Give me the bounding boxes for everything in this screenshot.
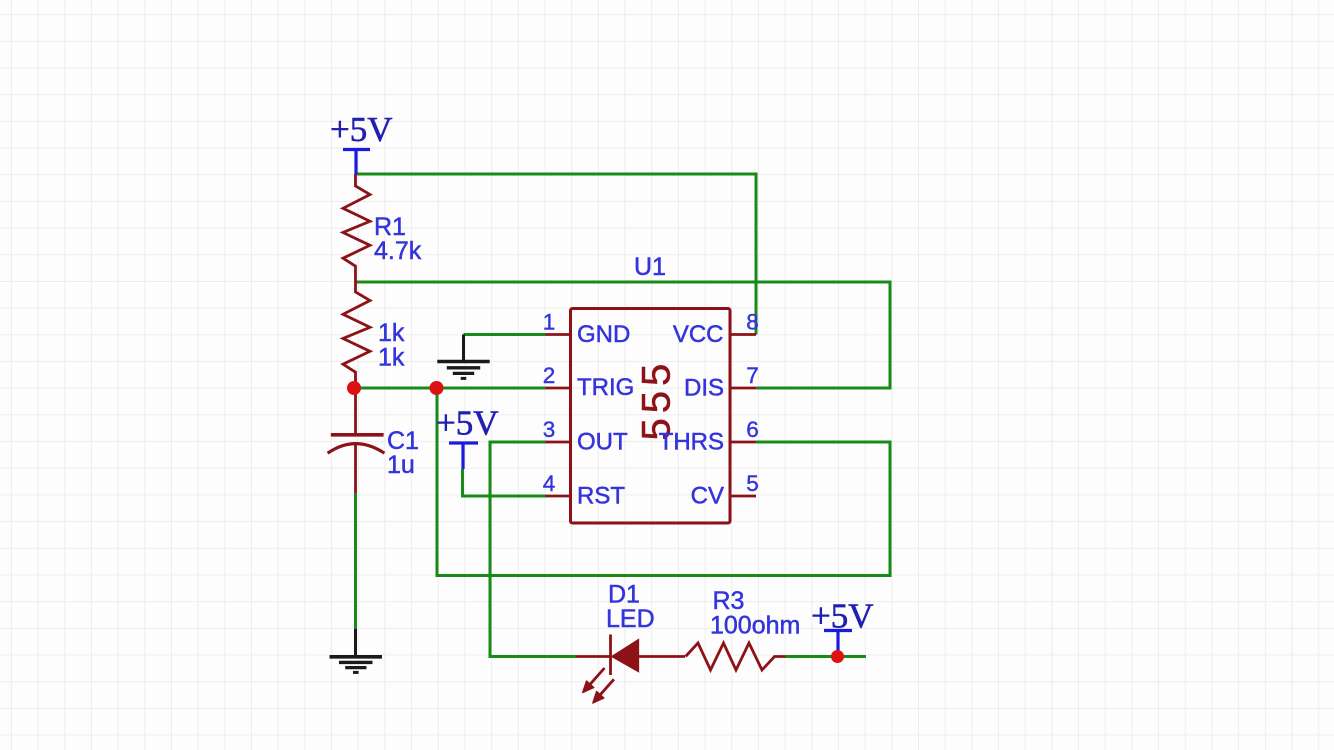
svg-text:TRIG: TRIG xyxy=(577,374,634,401)
svg-text:OUT: OUT xyxy=(577,429,628,456)
svg-text:DIS: DIS xyxy=(684,375,724,402)
svg-text:U1: U1 xyxy=(634,253,666,281)
svg-text:RST: RST xyxy=(577,483,625,510)
svg-text:VCC: VCC xyxy=(673,321,724,348)
svg-text:GND: GND xyxy=(577,321,630,348)
svg-text:1k: 1k xyxy=(378,344,405,372)
wire net RST: +5V flag to RST pin 4 xyxy=(463,469,546,496)
pin 7 DIS stub xyxy=(730,387,756,390)
diode D1 LED xyxy=(576,635,685,704)
wire net OUT: OUT pin 3 to LED cathode xyxy=(490,442,576,657)
svg-text:THRS: THRS xyxy=(659,429,724,456)
pin 6 THRS stub xyxy=(730,441,756,444)
svg-text:1: 1 xyxy=(543,310,556,335)
power flag +5V (right of R3) xyxy=(811,597,874,654)
junction dot at R3/+5V node xyxy=(831,650,844,663)
svg-text:CV: CV xyxy=(691,483,724,510)
wire R3 right to +5V xyxy=(786,655,867,658)
power flag +5V (at RST pin 4) xyxy=(436,404,499,470)
resistor R2 xyxy=(343,282,370,388)
svg-text:100ohm: 100ohm xyxy=(710,612,800,640)
svg-text:+5V: +5V xyxy=(811,597,874,636)
ground (at GND pin 1) xyxy=(437,335,489,379)
svg-text:1u: 1u xyxy=(387,451,415,479)
svg-text:+5V: +5V xyxy=(436,404,499,443)
pin 8 VCC stub xyxy=(730,333,756,336)
svg-text:+5V: +5V xyxy=(330,110,393,149)
junction dot at TRIG/THRS node xyxy=(430,381,444,395)
svg-text:8: 8 xyxy=(746,310,759,335)
wire net R1/R2 junction to DIS pin 7 xyxy=(356,282,891,388)
pin 2 TRIG stub xyxy=(546,387,571,390)
IC U1 555 timer body xyxy=(571,309,731,524)
svg-text:7: 7 xyxy=(746,363,759,388)
svg-text:4: 4 xyxy=(543,471,556,496)
svg-text:3: 3 xyxy=(543,417,556,442)
svg-text:6: 6 xyxy=(746,417,759,442)
svg-text:LED: LED xyxy=(606,605,655,633)
pin 5 CV stub xyxy=(730,495,756,498)
wire net GND: ground to GND pin 1 xyxy=(464,333,546,336)
wire C1 bottom to ground xyxy=(354,493,357,629)
power flag +5V (top, above R1) xyxy=(330,110,393,174)
pin 3 OUT stub xyxy=(546,441,571,444)
capacitor C1 (polarized) xyxy=(328,388,385,493)
svg-text:5: 5 xyxy=(746,471,759,496)
svg-text:2: 2 xyxy=(543,363,556,388)
ground (bottom left, below C1) xyxy=(330,629,383,673)
resistor R1 xyxy=(343,174,370,282)
junction dot at R2/C1/TRIG node xyxy=(347,381,361,395)
svg-text:4.7k: 4.7k xyxy=(374,237,422,265)
wire net VCC top: +5V to VCC pin 8 xyxy=(356,174,757,335)
resistor R3 xyxy=(686,643,786,670)
wire net TRIG: junction to TRIG pin 2 xyxy=(354,387,546,390)
pin 4 RST stub xyxy=(546,495,571,498)
wire net THRS loop: junction down, right, up to THRS pin 6 xyxy=(437,388,890,576)
pin 1 GND stub xyxy=(546,333,571,336)
